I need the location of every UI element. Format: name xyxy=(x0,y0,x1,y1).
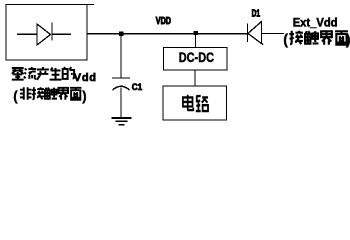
rectifier diode anode lead xyxy=(17,33,37,35)
svg-text:): ) xyxy=(346,33,350,49)
ground xyxy=(112,117,132,119)
DC-DC box xyxy=(164,48,228,71)
diode D1 triangle lower overshoot xyxy=(262,44,264,45)
junction node 1 xyxy=(119,32,123,36)
wire: node 2 down to DC-DC xyxy=(195,33,197,48)
svg-text:Vdd: Vdd xyxy=(74,72,97,84)
svg-text:D1: D1 xyxy=(252,7,261,19)
capacitor C1 curved plate xyxy=(113,86,130,90)
rectifier diode cathode lead xyxy=(52,33,71,35)
svg-text:(: ( xyxy=(283,33,288,49)
svg-text:): ) xyxy=(82,88,87,103)
circuit box label: 电路 xyxy=(183,95,193,110)
diode D1 cathode bar xyxy=(246,24,248,42)
diode D1 triangle xyxy=(248,22,262,44)
svg-text:DC-DC: DC-DC xyxy=(179,50,214,66)
capacitor C1 top plate xyxy=(112,77,130,79)
junction node 2 xyxy=(193,31,197,35)
svg-text:Ext_Vdd: Ext_Vdd xyxy=(293,17,338,29)
wire: box to diode D1 (VDD rail) xyxy=(87,33,247,35)
svg-text:C1: C1 xyxy=(132,81,143,91)
circuit box xyxy=(163,86,227,120)
rectifier diode triangle xyxy=(37,24,51,45)
rectifier diode cathode bar xyxy=(51,23,53,41)
diode D1 anode lead xyxy=(262,32,285,34)
rectifier block box xyxy=(6,5,87,61)
wire: DC-DC to circuit box xyxy=(194,70,196,86)
label line: 整流产生的Vdd xyxy=(12,68,24,80)
rectifier box top-edge overshoot xyxy=(87,4,94,6)
svg-text:(: ( xyxy=(13,88,18,103)
wire: node 1 down to C1 xyxy=(120,34,122,78)
C1 lead to ground xyxy=(120,87,122,117)
svg-text:VDD: VDD xyxy=(156,15,171,26)
